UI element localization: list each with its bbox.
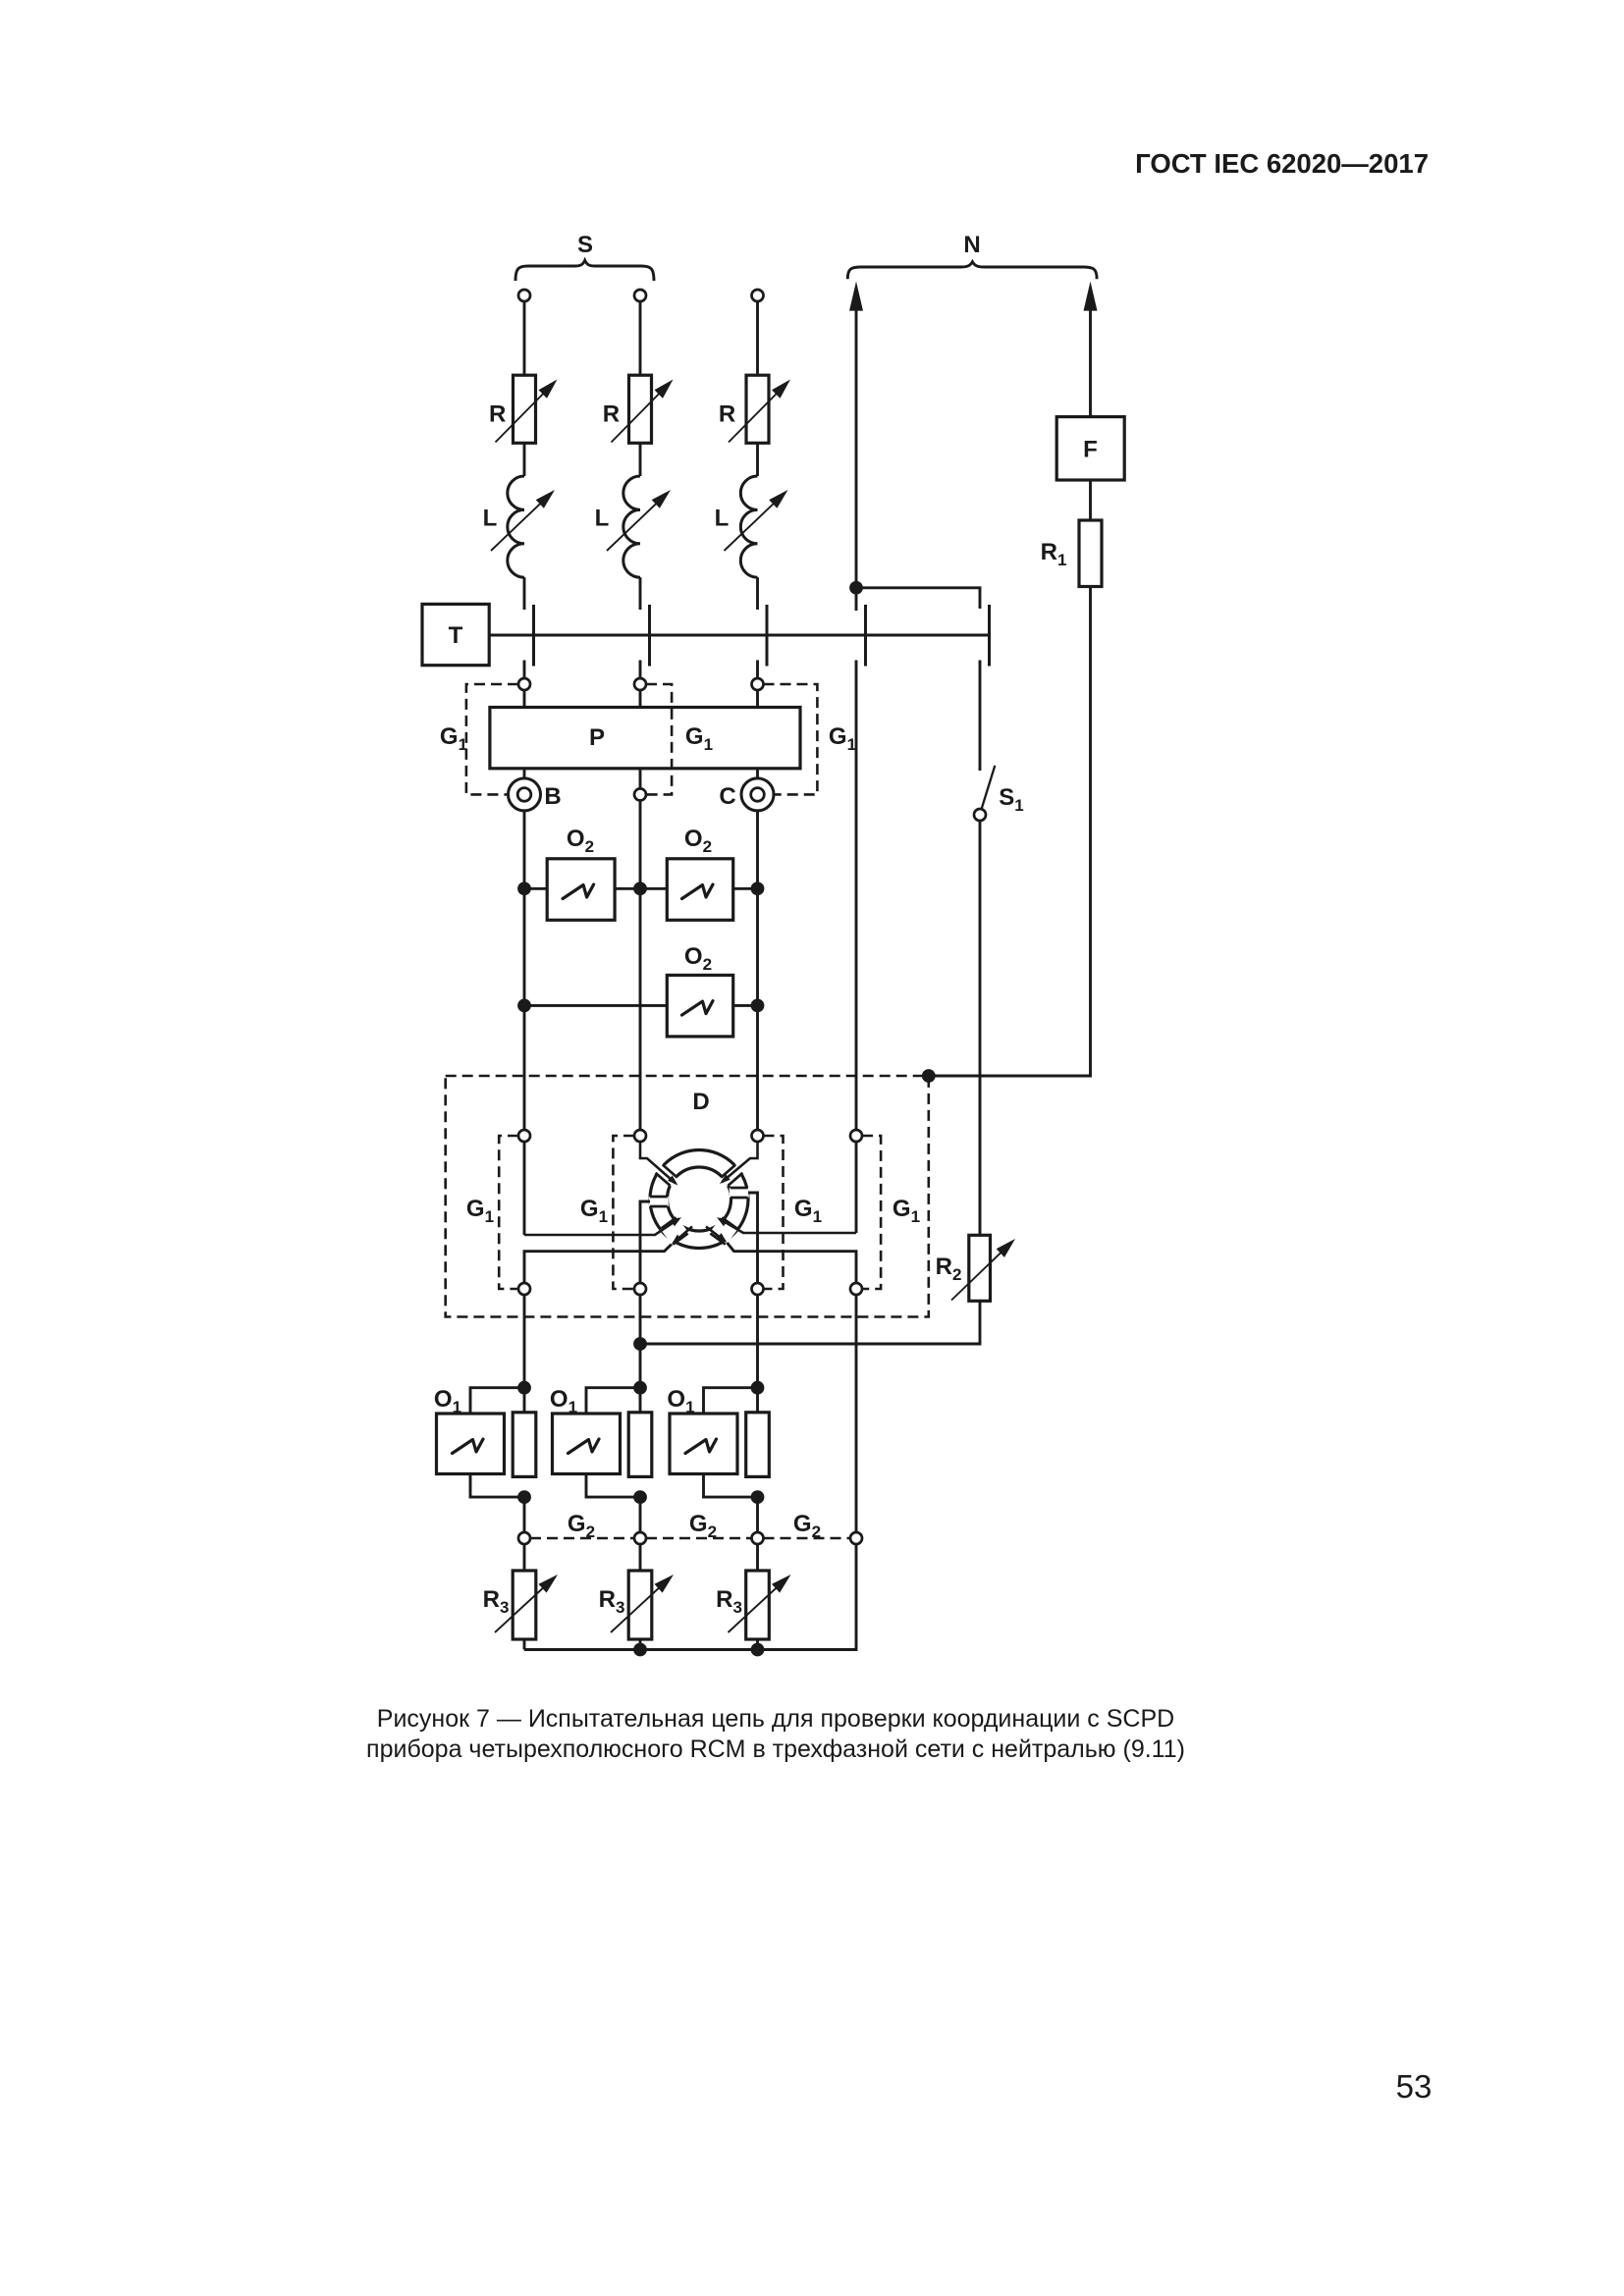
wire phase 2 terminal to resistor R — [639, 301, 642, 375]
svg-text:G1: G1 — [440, 723, 467, 754]
wire switch pole 3 to P terminal — [756, 661, 759, 679]
svg-text:S1: S1 — [999, 784, 1023, 815]
terminal circle P mid output — [634, 788, 646, 800]
terminal circle D bottom pole 1 — [518, 1283, 530, 1295]
resistor R (variable, phase 3) — [729, 375, 790, 443]
svg-text:R: R — [719, 401, 735, 428]
terminal circle P input phase 2 — [634, 678, 646, 690]
terminal circle D bottom pole 4 — [850, 1283, 862, 1295]
measuring device G1 bracket (pole 3, P section) — [764, 684, 818, 794]
svg-text:R: R — [603, 401, 620, 428]
inductor L (variable, phase 3) — [725, 476, 788, 577]
svg-text:ГОСТ IEC 62020—2017: ГОСТ IEC 62020—2017 — [1135, 148, 1429, 179]
wire L to switch T phase 2 — [639, 577, 642, 610]
conductor phase 3 into toroid — [720, 1142, 758, 1184]
svg-text:R3: R3 — [599, 1586, 625, 1617]
wire switch pole 1 to P terminal — [523, 661, 526, 679]
node dots O2 lower row — [517, 999, 764, 1013]
wire G2 to R3 phase 3 — [756, 1544, 759, 1571]
measuring device G1 bracket (D pole 2) — [613, 1136, 634, 1289]
switch S1 blade — [982, 766, 996, 810]
arrow N conductor (right, via F) — [1084, 282, 1098, 417]
label R phase 1 — [489, 401, 506, 428]
node dots bottom bus — [633, 1643, 764, 1657]
conductor phase 2 out of toroid — [640, 1201, 650, 1283]
label R2 — [936, 1254, 962, 1284]
switch S1 hinge circle — [974, 809, 986, 821]
wire N junction to pole 5 branch — [856, 588, 980, 609]
measuring device G1 bracket (pole 1, P section) — [466, 684, 518, 794]
wire phase 3 to D box — [756, 1005, 759, 1130]
label G1 (P section, pole 1) — [440, 723, 467, 754]
conductor phase 1 through toroid — [524, 1142, 692, 1283]
wire neutral D to G2 — [855, 1295, 858, 1532]
page header text ГОСТ IEC 62020—2017 — [1135, 148, 1429, 179]
label R1 — [1041, 539, 1067, 569]
resistor in O1 branch phase 1 — [513, 1413, 536, 1477]
wire R3 to bottom bus phase 1 — [523, 1639, 526, 1650]
inductor L (variable, phase 1) — [491, 476, 555, 577]
terminal C (socket) — [741, 778, 774, 811]
svg-text:G2: G2 — [689, 1511, 717, 1541]
measuring device G1 bracket (pole 2, P section) — [646, 684, 672, 794]
svg-text:G1: G1 — [580, 1196, 608, 1226]
svg-text:O2: O2 — [567, 826, 594, 856]
wire phase 3 terminal to resistor R — [756, 301, 759, 375]
resistor in O1 branch phase 2 — [628, 1413, 652, 1477]
switch T pole 4 contact blade — [864, 605, 867, 667]
brace N — [847, 262, 1097, 280]
label G2 (1) — [568, 1511, 595, 1541]
label S1 — [999, 784, 1023, 815]
svg-text:G1: G1 — [893, 1196, 920, 1226]
svg-text:53: 53 — [1396, 2068, 1433, 2105]
toroid ring crossing gaps — [649, 1164, 749, 1246]
terminal circle supply phase 2 — [634, 290, 646, 301]
resistor R (variable, phase 2) — [612, 375, 674, 443]
svg-text:S: S — [577, 232, 593, 258]
svg-text:R2: R2 — [936, 1254, 962, 1284]
node dot D box corner to R1 branch — [922, 1069, 936, 1083]
resistor R3 (variable, phase 2) — [611, 1571, 674, 1639]
svg-text:C: C — [719, 783, 735, 810]
wire phase 3 D to O1 — [756, 1295, 759, 1413]
svg-text:прибора четырехполюсного RCM в: прибора четырехполюсного RCM в трехфазно… — [366, 1735, 1185, 1763]
wire R2 to bottom rail — [640, 1301, 980, 1344]
label C — [719, 783, 735, 810]
terminal circles G2 row — [518, 1532, 862, 1544]
wire R to L phase 2 — [639, 443, 642, 476]
wire R to L phase 1 — [523, 443, 526, 476]
bottom bus wire — [524, 1544, 856, 1650]
wire phase 2 D to O1 — [639, 1295, 642, 1413]
svg-text:G1: G1 — [794, 1196, 822, 1226]
svg-text:R: R — [489, 401, 506, 428]
terminal circle D top pole 3 — [752, 1130, 764, 1142]
terminal circle P input phase 1 — [518, 678, 530, 690]
svg-text:Рисунок 7 — Испытательная цепь: Рисунок 7 — Испытательная цепь для прове… — [377, 1705, 1174, 1733]
svg-text:O1: O1 — [550, 1386, 577, 1416]
switch T pole 1 contact blade — [532, 605, 535, 667]
wire P to terminal B — [523, 769, 526, 779]
arrow N conductor (left) — [849, 282, 863, 588]
node dots O1 phase 2 — [633, 1381, 647, 1504]
wire phase 1 D to O1 — [523, 1295, 526, 1413]
surge arrester O2 (2-3) — [667, 859, 732, 921]
label O1 (phase 3) — [667, 1386, 694, 1416]
label R3 phase 2 — [599, 1586, 625, 1617]
svg-text:O1: O1 — [434, 1386, 461, 1416]
measuring device G1 bracket (D pole 1) — [499, 1136, 518, 1289]
svg-text:O2: O2 — [684, 826, 712, 856]
label T — [449, 622, 463, 649]
svg-text:G2: G2 — [793, 1511, 821, 1541]
svg-text:G1: G1 — [829, 723, 856, 754]
wire switch pole 4 down — [855, 661, 858, 1131]
resistor R2 (variable) — [951, 1235, 1015, 1301]
label B — [544, 783, 561, 810]
current transformer toroid core — [650, 1150, 748, 1249]
switch actuator box T — [422, 604, 489, 665]
wire R to L phase 3 — [756, 443, 759, 476]
label L phase 3 — [715, 506, 730, 532]
wire phase 1 terminal to resistor R — [523, 301, 526, 375]
wire R3 to bottom bus phase 2 — [639, 1639, 642, 1650]
label L phase 1 — [483, 506, 498, 532]
resistor R3 (variable, phase 1) — [495, 1571, 558, 1639]
surge arrester O2 (1-3) — [667, 975, 732, 1037]
wire L to switch T phase 1 — [523, 577, 526, 610]
svg-text:L: L — [483, 506, 498, 532]
label R3 phase 3 — [716, 1586, 742, 1617]
terminal circle supply phase 1 — [518, 290, 530, 301]
terminal circle D top pole 1 — [518, 1130, 530, 1142]
wire O2-2 connections — [640, 887, 758, 890]
switch T pole 2 contact blade — [648, 605, 651, 667]
wire P input 3 — [756, 690, 759, 708]
terminal circle D top pole 4 — [850, 1130, 862, 1142]
wire R1 down to D box corner — [929, 587, 1091, 1077]
switch T mechanical bus — [489, 634, 989, 637]
wire P to terminal C — [756, 769, 759, 779]
svg-text:R3: R3 — [716, 1586, 742, 1617]
svg-text:L: L — [595, 506, 610, 532]
wire R3 to bottom bus phase 3 — [756, 1639, 759, 1650]
label G1 (P section, pole 2) — [685, 723, 713, 754]
label P — [589, 724, 605, 751]
wire switch pole 5 to S1 — [979, 661, 982, 772]
wire phase 3 C to O2 row — [756, 810, 759, 1005]
svg-text:D: D — [692, 1089, 709, 1115]
svg-text:R1: R1 — [1041, 539, 1067, 569]
device under test D dashed box — [446, 1076, 929, 1317]
node dots O1 phase 3 — [751, 1381, 765, 1504]
switch T pole 5 contact blade — [988, 605, 991, 667]
conductor neutral through toroid — [706, 1142, 856, 1283]
svg-text:L: L — [715, 506, 730, 532]
label R phase 2 — [603, 401, 620, 428]
figure caption line 2 — [366, 1735, 1185, 1763]
surge arrester O1 (phase 3) — [670, 1388, 758, 1497]
label G1 (D pole 2) — [580, 1196, 608, 1226]
conductor phase 2 into toroid — [640, 1142, 678, 1186]
resistor R3 (variable, phase 3) — [729, 1571, 791, 1639]
svg-text:R3: R3 — [483, 1586, 510, 1617]
label N — [963, 232, 980, 258]
svg-text:O2: O2 — [684, 943, 712, 974]
terminal circle D bottom pole 3 — [752, 1283, 764, 1295]
label O2 (2-3) — [684, 826, 712, 856]
label O1 (phase 1) — [434, 1386, 461, 1416]
device box P — [490, 708, 800, 769]
label S — [577, 232, 593, 258]
label R3 phase 1 — [483, 1586, 510, 1617]
page number 53 — [1396, 2068, 1433, 2105]
label F — [1083, 437, 1098, 463]
wire S1 line to R2 — [979, 1080, 982, 1235]
measuring device G1 bracket (D pole 4) — [862, 1136, 881, 1289]
wire P input 2 — [639, 690, 642, 708]
node N junction (dot on N conductor) — [849, 581, 863, 595]
wire phase 1 B to O2 row — [523, 810, 526, 1005]
node dots O1 phase 1 — [517, 1381, 531, 1504]
inductor L (variable, phase 2) — [607, 476, 671, 577]
wire O1 to G2 terminal phase 3 — [756, 1497, 759, 1532]
wire G2 to R3 phase 2 — [639, 1544, 642, 1571]
surge arrester O1 (phase 1) — [437, 1388, 525, 1497]
label G2 (2) — [689, 1511, 717, 1541]
wire O1 to G2 terminal phase 1 — [523, 1497, 526, 1532]
svg-text:B: B — [544, 783, 561, 810]
terminal circle D bottom pole 2 — [634, 1283, 646, 1295]
wire O2-3 connections — [524, 1004, 758, 1007]
label G2 (3) — [793, 1511, 821, 1541]
label R phase 3 — [719, 401, 735, 428]
wire phase 1 to D box — [523, 1005, 526, 1130]
label G1 (D pole 3) — [794, 1196, 822, 1226]
svg-text:P: P — [589, 724, 605, 751]
resistor R1 — [1079, 520, 1102, 587]
wire F to R1 — [1089, 480, 1092, 520]
wire phase 2 to O2 row — [639, 800, 642, 1130]
fuse box F — [1056, 417, 1124, 480]
figure caption line 1 — [377, 1705, 1174, 1733]
svg-text:G1: G1 — [466, 1196, 494, 1226]
dashed link G2 segments — [530, 1537, 850, 1540]
label O2 (1-3) — [684, 943, 712, 974]
measuring device G1 bracket (D pole 3) — [764, 1136, 784, 1289]
surge arrester O1 (phase 2) — [553, 1388, 641, 1497]
wire switch pole 2 to P terminal — [639, 661, 642, 679]
node dot R2 rail on phase 2 — [633, 1337, 647, 1351]
svg-text:O1: O1 — [667, 1386, 694, 1416]
terminal circle P input phase 3 — [752, 678, 764, 690]
wire P input 1 — [523, 690, 526, 708]
wire P to mid terminal — [639, 769, 642, 789]
terminal B (socket) — [509, 778, 541, 811]
label G1 (D pole 4) — [893, 1196, 920, 1226]
wire O2-1 connections — [524, 887, 640, 890]
svg-text:T: T — [449, 622, 463, 649]
label O1 (phase 2) — [550, 1386, 577, 1416]
terminal circle D top pole 2 — [634, 1130, 646, 1142]
resistor R (variable, phase 1) — [496, 375, 558, 443]
label G1 (D pole 1) — [466, 1196, 494, 1226]
wire G2 to R3 phase 1 — [523, 1544, 526, 1571]
label G1 (P section, pole 3) — [829, 723, 856, 754]
wire S1 to R2 — [979, 821, 982, 1235]
svg-text:N: N — [963, 232, 980, 258]
wire L to switch T phase 3 — [756, 577, 759, 610]
label D — [692, 1089, 709, 1115]
brace S — [515, 260, 654, 281]
label O2 (1-2) — [567, 826, 594, 856]
wire N conductor junction to switch pole 4 — [855, 588, 858, 611]
node dots O2 row — [517, 881, 764, 895]
wire O1 to G2 terminal phase 2 — [639, 1497, 642, 1532]
svg-text:F: F — [1083, 437, 1098, 463]
terminal circle supply phase 3 — [752, 290, 764, 301]
surge arrester O2 (1-2) — [547, 859, 615, 921]
svg-text:G2: G2 — [568, 1511, 595, 1541]
label L phase 2 — [595, 506, 610, 532]
conductor phase 3 out of toroid — [748, 1193, 758, 1283]
resistor in O1 branch phase 3 — [746, 1413, 770, 1477]
switch T pole 3 contact blade — [766, 605, 769, 667]
